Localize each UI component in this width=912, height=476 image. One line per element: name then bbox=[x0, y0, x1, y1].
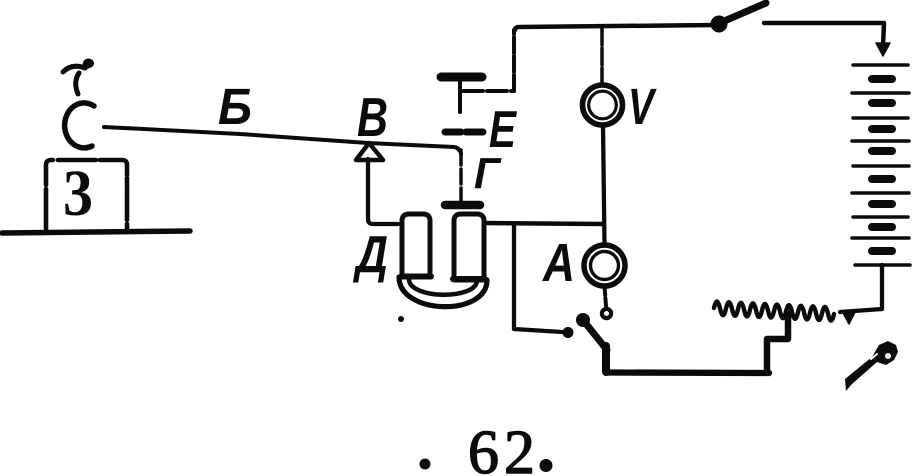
top wire left segment bbox=[515, 25, 716, 30]
battery cells bbox=[852, 65, 910, 265]
wire tube to meters branch bbox=[484, 223, 603, 224]
svg-text:В: В bbox=[357, 86, 388, 148]
caption dot bbox=[420, 459, 431, 470]
svg-text:V: V bbox=[628, 78, 657, 135]
fulcrum triangle at В bbox=[356, 143, 383, 160]
ammeter A bbox=[584, 245, 625, 286]
switch post bbox=[602, 346, 610, 372]
rheostat winding bbox=[714, 302, 834, 321]
wire top to voltmeter bbox=[600, 28, 604, 85]
U-tube inner bend bbox=[409, 280, 477, 295]
wire voltmeter to ammeter bbox=[603, 125, 605, 245]
svg-text:А: А bbox=[541, 233, 575, 293]
caption period bbox=[540, 459, 553, 472]
knife switch blade dot bbox=[576, 313, 590, 327]
bottom wire bbox=[607, 369, 769, 376]
main switch pivot dot bbox=[711, 16, 728, 33]
bell gong (C shape) bbox=[65, 103, 94, 148]
svg-text:Г: Г bbox=[474, 149, 502, 198]
table / ground line bbox=[2, 231, 190, 233]
U-tube Д right arm bbox=[454, 214, 484, 280]
lower stem wire bbox=[459, 150, 463, 200]
middle plate Е bbox=[445, 129, 483, 136]
top wire right segment bbox=[764, 23, 884, 46]
battery top arrowhead bbox=[876, 43, 890, 56]
voltmeter V bbox=[583, 85, 623, 125]
knife switch blade bbox=[583, 320, 607, 350]
switch ring terminal bbox=[602, 309, 611, 318]
U-tube Д left arm bbox=[402, 214, 430, 277]
top plate stem bbox=[458, 80, 462, 112]
left branch wire to switch bbox=[514, 224, 562, 332]
wire fulcrum down to tube bbox=[368, 159, 398, 224]
main switch lever bbox=[722, 3, 766, 22]
bottom plate Г bbox=[445, 201, 480, 210]
wire plate to riser bbox=[463, 89, 514, 93]
svg-text:3: 3 bbox=[63, 157, 93, 230]
rheostat wiper step bbox=[767, 313, 788, 371]
ammeter lower stem bbox=[605, 286, 607, 306]
ink dot below tube bbox=[398, 316, 404, 322]
wire end arrowhead bbox=[843, 312, 855, 324]
branch end dot bbox=[563, 327, 574, 338]
svg-text:Д: Д bbox=[353, 226, 388, 284]
lever arm Б (wire from gong to fulcrum and plate) bbox=[104, 127, 461, 154]
bell striker hook (top of device З) bbox=[63, 60, 92, 94]
riser wire to top bbox=[512, 30, 516, 91]
svg-text:Б: Б bbox=[218, 78, 252, 135]
U-tube outer bend bbox=[399, 277, 487, 307]
stand box З bbox=[46, 160, 127, 231]
battery bottom wire bbox=[840, 265, 882, 312]
pencil arrow mark bbox=[845, 341, 898, 391]
electrode assembly: top plate T bbox=[441, 73, 482, 82]
